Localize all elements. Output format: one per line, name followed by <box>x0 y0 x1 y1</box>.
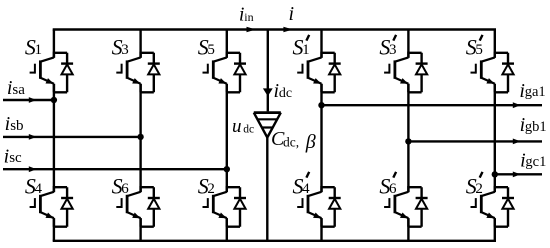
svg-text:dc: dc <box>279 86 292 101</box>
svg-text:i: i <box>289 3 295 25</box>
svg-text:gc1: gc1 <box>525 154 546 170</box>
svg-text:in: in <box>244 10 253 24</box>
svg-text:2: 2 <box>207 181 215 197</box>
svg-text:3: 3 <box>121 42 129 58</box>
svg-text:dc: dc <box>243 123 254 135</box>
svg-text:5: 5 <box>207 42 215 58</box>
svg-text:5: 5 <box>475 42 483 58</box>
svg-text:1: 1 <box>302 42 310 58</box>
svg-text:gb1: gb1 <box>525 119 547 135</box>
svg-text:ga1: ga1 <box>525 84 546 100</box>
svg-text:4: 4 <box>302 181 310 197</box>
svg-text:2: 2 <box>475 181 483 197</box>
svg-text:4: 4 <box>35 181 43 197</box>
svg-text:u: u <box>232 116 242 137</box>
svg-text:1: 1 <box>35 42 43 58</box>
svg-text:sb: sb <box>10 118 23 134</box>
svg-text:6: 6 <box>389 181 397 197</box>
svg-text:3: 3 <box>389 42 397 58</box>
svg-text:sa: sa <box>12 82 25 98</box>
svg-text:6: 6 <box>121 181 129 197</box>
svg-text:sc: sc <box>9 150 22 166</box>
svg-text:β: β <box>305 131 316 153</box>
svg-text:dc,: dc, <box>283 134 299 149</box>
